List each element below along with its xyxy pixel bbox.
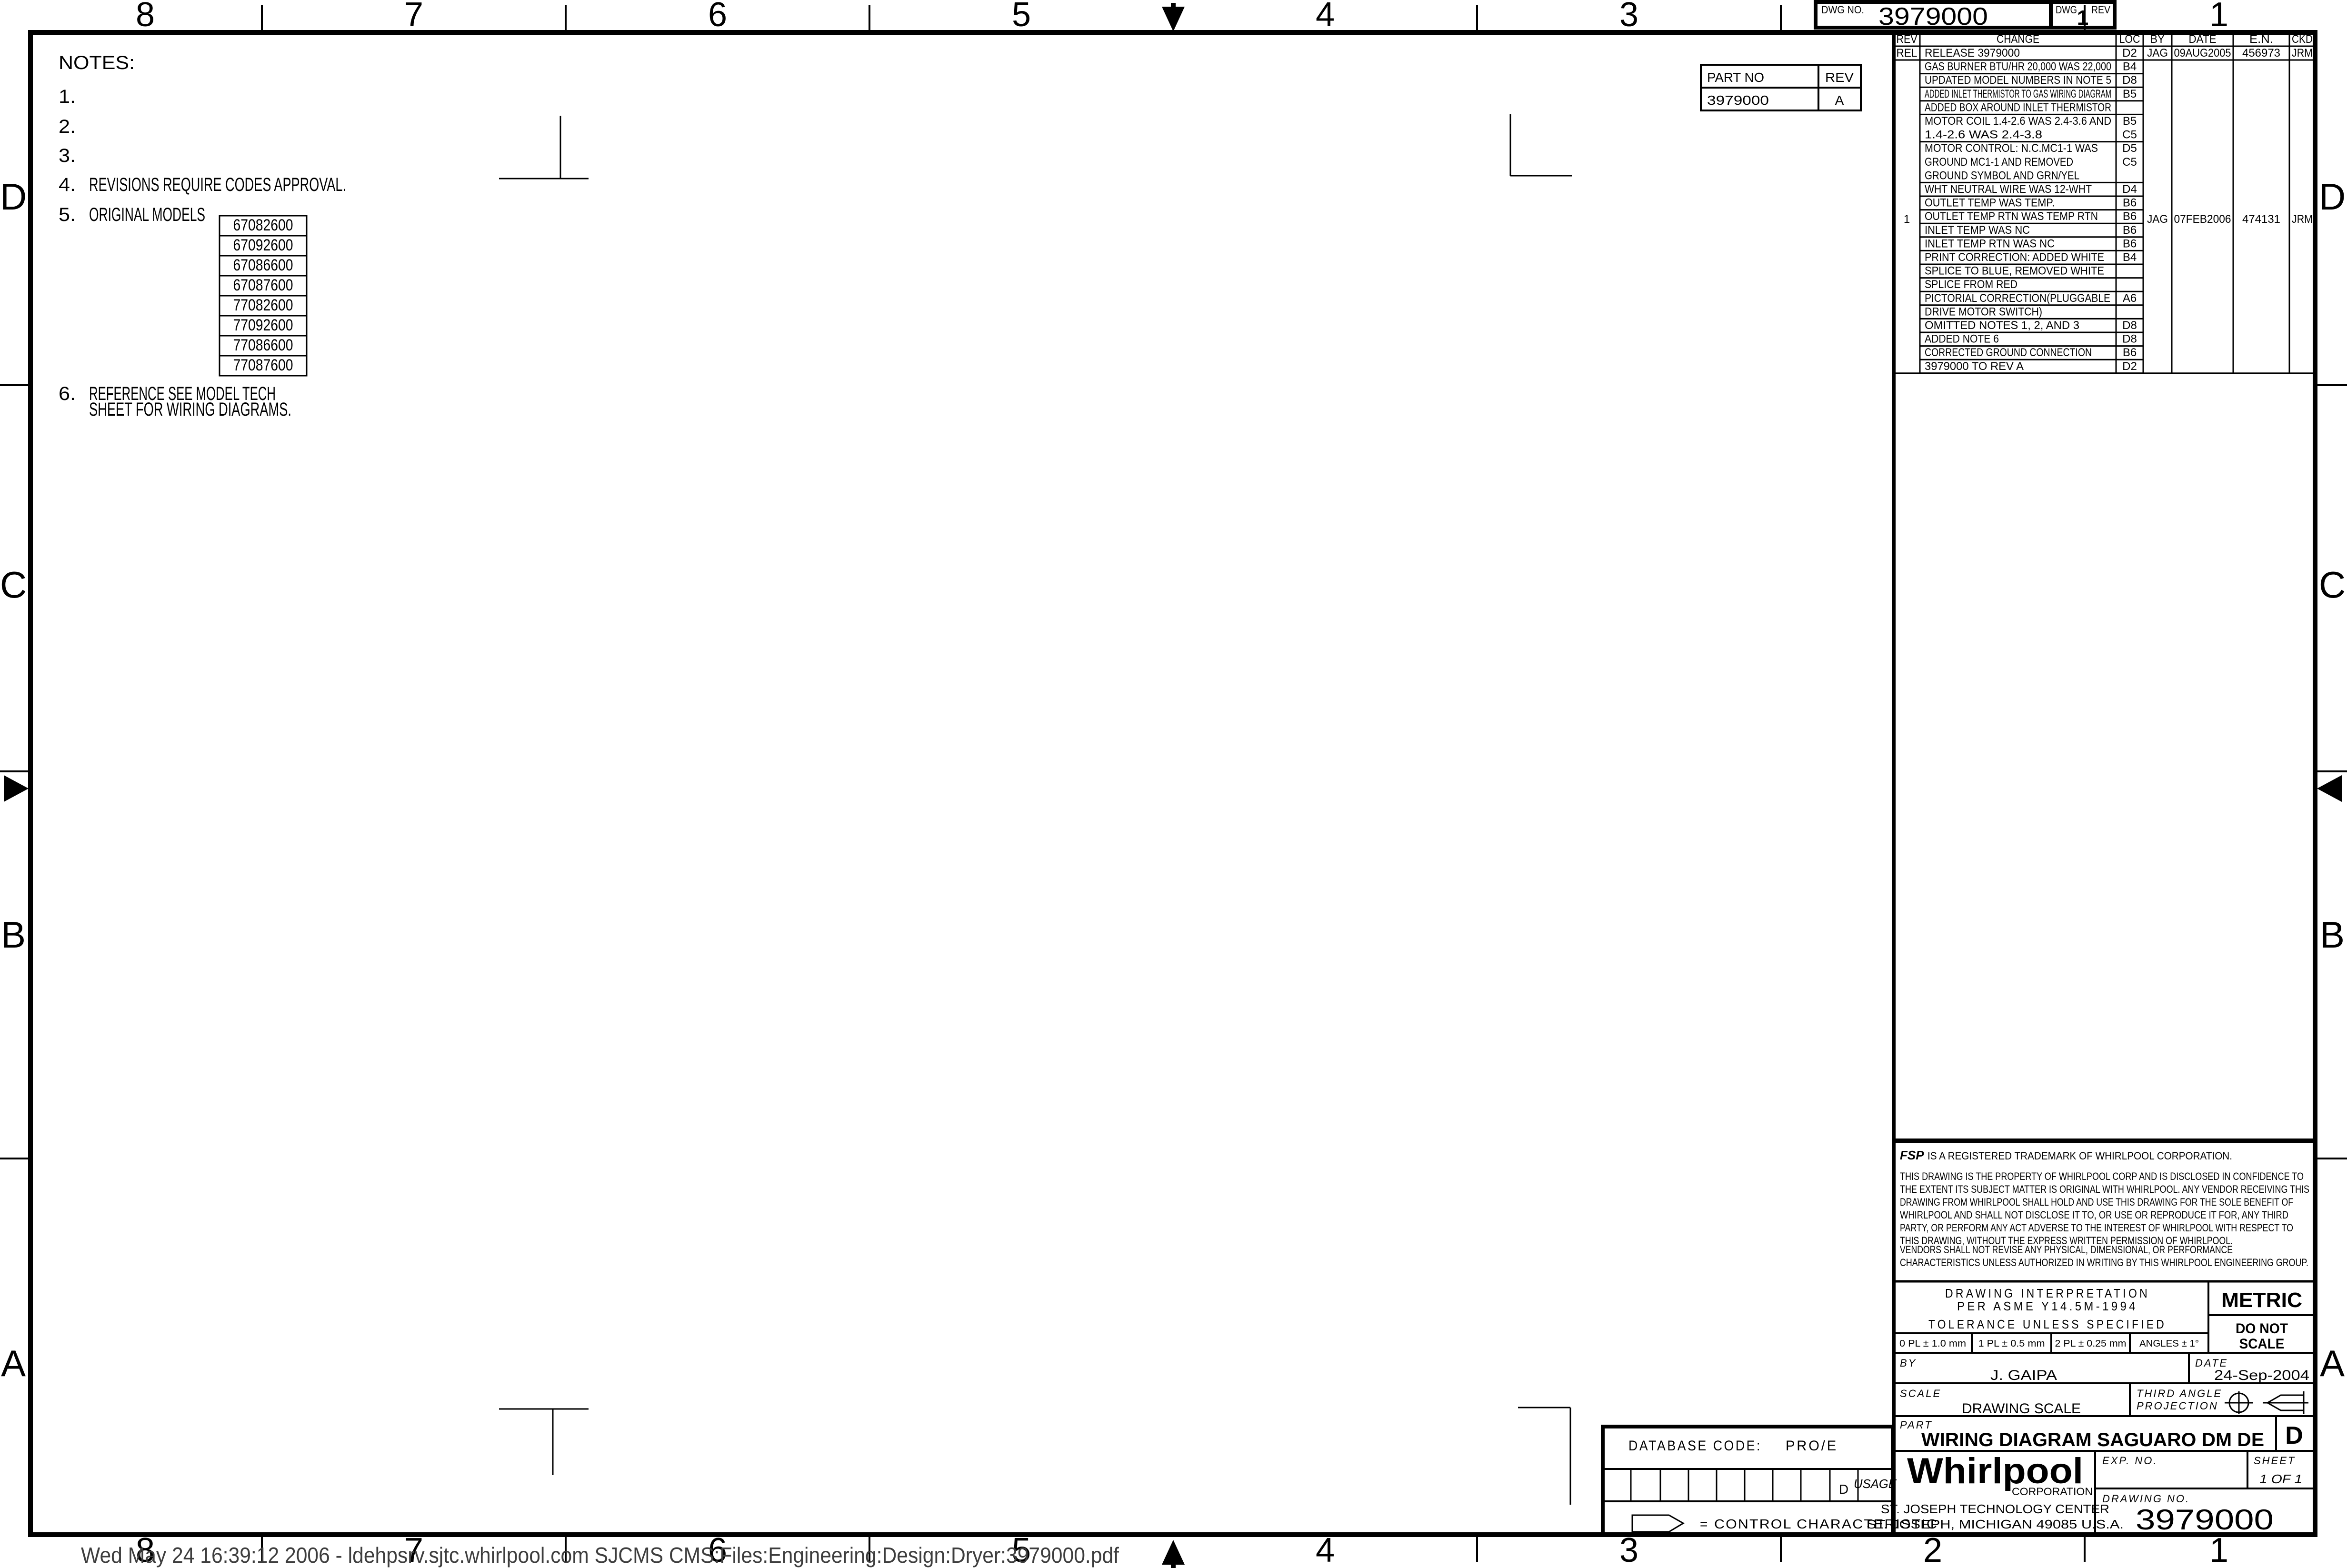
svg-text:4: 4 [1316, 0, 1335, 34]
revision table [1894, 32, 2315, 1535]
svg-text:DRIVE MOTOR SWITCH): DRIVE MOTOR SWITCH) [1925, 305, 2042, 318]
svg-text:UPDATED MODEL NUMBERS IN NOTE: UPDATED MODEL NUMBERS IN NOTE 5 [1925, 74, 2111, 87]
svg-text:67086600: 67086600 [233, 256, 293, 274]
svg-text:ADDED BOX AROUND INLET THERMIS: ADDED BOX AROUND INLET THERMISTOR [1925, 101, 2111, 114]
svg-text:67082600: 67082600 [233, 216, 293, 234]
svg-text:CHARACTERISTICS UNLESS AUTHORI: CHARACTERISTICS UNLESS AUTHORIZED IN WRI… [1900, 1257, 2308, 1268]
svg-text:3979000: 3979000 [1707, 93, 1769, 108]
svg-text:NOTES:: NOTES: [59, 52, 135, 73]
svg-text:1: 1 [2077, 6, 2088, 30]
svg-text:5: 5 [1012, 0, 1031, 34]
center fold arrow right [2317, 775, 2342, 802]
svg-text:3979000 TO REV A: 3979000 TO REV A [1925, 360, 2024, 373]
svg-text:THE EXTENT ITS SUBJECT MATTER: THE EXTENT ITS SUBJECT MATTER IS ORIGINA… [1900, 1183, 2309, 1195]
svg-text:474131: 474131 [2242, 213, 2280, 226]
svg-text:JRM: JRM [2292, 213, 2313, 226]
svg-text:B6: B6 [2123, 237, 2137, 250]
center fold arrow left [4, 775, 29, 802]
svg-text:SPLICE FROM RED: SPLICE FROM RED [1925, 278, 2017, 291]
svg-text:PICTORIAL CORRECTION(PLUGGABLE: PICTORIAL CORRECTION(PLUGGABLE [1925, 292, 2110, 305]
svg-text:BY: BY [2150, 33, 2165, 46]
title block SCALE / THIRD ANGLE row [1894, 1383, 2315, 1417]
svg-text:1 OF 1: 1 OF 1 [2259, 1472, 2302, 1486]
svg-text:INLET TEMP WAS NC: INLET TEMP WAS NC [1925, 224, 2030, 237]
svg-text:D2: D2 [2122, 360, 2137, 373]
svg-text:1: 1 [2209, 1531, 2228, 1568]
svg-text:USAGE: USAGE [1854, 1477, 1897, 1491]
footer plot timestamp text [81, 1543, 1119, 1568]
svg-text:2 PL ± 0.25 mm: 2 PL ± 0.25 mm [2055, 1338, 2127, 1349]
svg-text:CORPORATION: CORPORATION [2012, 1486, 2093, 1498]
svg-text:24-Sep-2004: 24-Sep-2004 [2214, 1368, 2309, 1383]
svg-text:OMITTED NOTES 1, 2, AND 3: OMITTED NOTES 1, 2, AND 3 [1925, 319, 2079, 332]
svg-text:67087600: 67087600 [233, 276, 293, 294]
svg-text:B6: B6 [2123, 346, 2137, 359]
svg-text:OUTLET TEMP RTN WAS TEMP RTN: OUTLET TEMP RTN WAS TEMP RTN [1925, 210, 2098, 223]
svg-text:456973: 456973 [2242, 47, 2280, 60]
svg-text:MOTOR COIL 1.4-2.6 WAS 2.4-3.6: MOTOR COIL 1.4-2.6 WAS 2.4-3.6 AND [1925, 115, 2111, 128]
svg-text:1.: 1. [59, 86, 76, 107]
svg-text:JRM: JRM [2292, 47, 2313, 60]
title block PART row [1894, 1416, 2315, 1451]
svg-text:DRAWING SCALE: DRAWING SCALE [1962, 1401, 2081, 1417]
svg-text:C5: C5 [2122, 156, 2137, 169]
camera alignment mark upper-right [1510, 114, 1572, 176]
camera alignment mark lower-left [499, 1409, 589, 1475]
svg-text:B5: B5 [2123, 88, 2137, 100]
svg-text:JAG: JAG [2147, 213, 2168, 226]
svg-text:DATE: DATE [2189, 33, 2217, 46]
svg-text:6: 6 [708, 0, 727, 34]
svg-text:8: 8 [136, 0, 155, 34]
svg-text:2: 2 [1923, 1531, 1942, 1568]
zone column labels bottom [136, 1531, 2228, 1568]
svg-text:6.: 6. [59, 383, 76, 404]
svg-text:PART NO: PART NO [1707, 70, 1764, 85]
svg-text:3: 3 [1619, 0, 1638, 34]
svg-text:ADDED NOTE 6: ADDED NOTE 6 [1925, 333, 1999, 346]
svg-text:DWG: DWG [2056, 4, 2077, 16]
svg-text:PRO/E: PRO/E [1786, 1438, 1838, 1454]
svg-text:CORRECTED GROUND CONNECTION: CORRECTED GROUND CONNECTION [1925, 346, 2092, 359]
svg-text:09AUG2005: 09AUG2005 [2174, 47, 2231, 60]
svg-text:PRINT CORRECTION: ADDED WHITE: PRINT CORRECTION: ADDED WHITE [1925, 251, 2104, 264]
notes text block [59, 52, 346, 420]
svg-text:SPLICE TO BLUE, REMOVED WHITE: SPLICE TO BLUE, REMOVED WHITE [1925, 265, 2104, 278]
svg-text:D: D [2285, 1422, 2303, 1449]
svg-text:07FEB2006: 07FEB2006 [2174, 213, 2231, 226]
svg-text:JAG: JAG [2147, 47, 2168, 60]
svg-text:SHEET FOR WIRING DIAGRAMS.: SHEET FOR WIRING DIAGRAMS. [89, 399, 291, 420]
svg-text:D: D [2319, 176, 2346, 218]
svg-text:WIRING DIAGRAM SAGUARO DM DE: WIRING DIAGRAM SAGUARO DM DE [1921, 1429, 2264, 1450]
svg-text:TOLERANCE UNLESS SPECIFIED: TOLERANCE UNLESS SPECIFIED [1928, 1317, 2167, 1331]
svg-text:E.N.: E.N. [2249, 33, 2273, 46]
DWG NO header box [1816, 2, 2115, 30]
svg-text:ANGLES ± 1°: ANGLES ± 1° [2139, 1338, 2199, 1349]
svg-text:1: 1 [1904, 213, 1910, 226]
svg-text:77087600: 77087600 [233, 356, 293, 374]
svg-text:3979000: 3979000 [1878, 3, 1988, 30]
svg-text:B6: B6 [2123, 224, 2137, 237]
svg-text:WHT NEUTRAL WIRE WAS 12-WHT: WHT NEUTRAL WIRE WAS 12-WHT [1925, 183, 2092, 196]
center fold arrow top [1162, 3, 1185, 31]
svg-text:RELEASE 3979000: RELEASE 3979000 [1925, 47, 2020, 60]
svg-text:SCALE: SCALE [1900, 1388, 1941, 1399]
svg-text:ADDED INLET THERMISTOR TO GAS: ADDED INLET THERMISTOR TO GAS WIRING DIA… [1925, 88, 2111, 100]
Whirlpool logo block [1867, 1451, 2124, 1535]
svg-text:SHEET: SHEET [2254, 1455, 2296, 1467]
svg-text:J. GAIPA: J. GAIPA [1990, 1368, 2057, 1383]
camera alignment mark upper-left [499, 116, 589, 179]
svg-text:3.: 3. [59, 145, 76, 166]
drawing interpretation / tolerance block [1894, 1281, 2315, 1353]
svg-text:DRAWING FROM WHIRLPOOL SHALL H: DRAWING FROM WHIRLPOOL SHALL HOLD AND US… [1900, 1196, 2293, 1208]
svg-text:IS A REGISTERED TRADEMARK OF W: IS A REGISTERED TRADEMARK OF WHIRLPOOL C… [1928, 1150, 2232, 1162]
svg-text:1 PL ± 0.5 mm: 1 PL ± 0.5 mm [1978, 1338, 2045, 1349]
svg-text:=: = [1700, 1517, 1708, 1531]
original models table [220, 216, 307, 376]
svg-text:5.: 5. [59, 204, 76, 225]
zone row labels right [2319, 176, 2346, 1384]
svg-text:B6: B6 [2123, 197, 2137, 210]
svg-text:INLET TEMP RTN WAS NC: INLET TEMP RTN WAS NC [1925, 237, 2055, 250]
svg-text:2.: 2. [59, 116, 76, 137]
svg-text:REV: REV [1825, 70, 1854, 85]
svg-text:THIRD ANGLE: THIRD ANGLE [2137, 1388, 2222, 1399]
svg-text:C: C [2319, 564, 2346, 606]
svg-text:REV: REV [2091, 4, 2110, 16]
svg-text:77086600: 77086600 [233, 336, 293, 354]
svg-text:3: 3 [1619, 1531, 1638, 1568]
svg-text:ORIGINAL MODELS: ORIGINAL MODELS [89, 204, 205, 225]
zone tick marks top/bottom [262, 5, 2085, 1562]
svg-text:C5: C5 [2122, 129, 2137, 141]
svg-text:REV: REV [1897, 33, 1918, 46]
svg-text:BY: BY [1900, 1357, 1917, 1369]
svg-text:C: C [0, 564, 27, 606]
zone side tick marks [0, 385, 2347, 1159]
zone column labels top [136, 0, 2228, 34]
svg-text:ST. JOSEPH TECHNOLOGY CENTER: ST. JOSEPH TECHNOLOGY CENTER [1881, 1502, 2109, 1516]
svg-text:DRAWING INTERPRETATION: DRAWING INTERPRETATION [1945, 1286, 2150, 1300]
svg-text:Wed May 24 16:39:12 2006 - lde: Wed May 24 16:39:12 2006 - ldehpsrv.sjtc… [81, 1543, 1119, 1568]
svg-text:PER ASME Y14.5M-1994: PER ASME Y14.5M-1994 [1957, 1299, 2138, 1313]
svg-text:PARTY, OR PERFORM ANY ACT ADVE: PARTY, OR PERFORM ANY ACT ADVERSE TO THE… [1900, 1222, 2293, 1234]
svg-text:77092600: 77092600 [233, 316, 293, 334]
svg-text:A: A [1835, 93, 1844, 108]
svg-text:D2: D2 [2122, 47, 2137, 60]
center fold arrow bottom [1162, 1540, 1185, 1568]
svg-text:DATABASE CODE:: DATABASE CODE: [1628, 1438, 1762, 1454]
svg-text:DO NOT: DO NOT [2236, 1321, 2288, 1337]
svg-text:D: D [0, 176, 27, 218]
svg-text:WHIRLPOOL AND SHALL NOT DISCLO: WHIRLPOOL AND SHALL NOT DISCLOSE IT TO, … [1900, 1209, 2288, 1221]
svg-text:D: D [1839, 1482, 1848, 1497]
svg-text:1: 1 [2209, 0, 2228, 34]
svg-text:PROJECTION: PROJECTION [2137, 1400, 2218, 1412]
svg-text:4: 4 [1316, 1531, 1335, 1568]
svg-text:LOC: LOC [2119, 33, 2140, 46]
svg-text:0 PL ± 1.0 mm: 0 PL ± 1.0 mm [1899, 1338, 1966, 1349]
svg-text:7: 7 [404, 0, 423, 34]
svg-text:4.: 4. [59, 174, 76, 195]
svg-text:FSP: FSP [1900, 1148, 1924, 1162]
svg-text:B: B [2320, 914, 2345, 956]
title block legal text [1894, 1141, 2315, 1268]
control characteristic legend [1632, 1515, 1938, 1532]
svg-text:B4: B4 [2123, 251, 2137, 264]
DRAWING NO cell [2102, 1493, 2274, 1536]
svg-text:CONTROL CHARACTERISTIC: CONTROL CHARACTERISTIC [1714, 1517, 1938, 1531]
svg-text:REVISIONS REQUIRE CODES APPROV: REVISIONS REQUIRE CODES APPROVAL. [89, 174, 346, 195]
svg-text:VENDORS SHALL NOT REVISE ANY P: VENDORS SHALL NOT REVISE ANY PHYSICAL, D… [1900, 1244, 2233, 1256]
svg-text:GROUND MC1-1 AND REMOVED: GROUND MC1-1 AND REMOVED [1925, 156, 2073, 169]
svg-text:D5: D5 [2122, 142, 2137, 155]
EXP NO / SHEET cells [2095, 1451, 2315, 1488]
svg-text:D8: D8 [2122, 319, 2137, 332]
svg-text:DWG NO.: DWG NO. [1821, 4, 1864, 16]
svg-text:GROUND SYMBOL AND GRN/YEL: GROUND SYMBOL AND GRN/YEL [1925, 169, 2079, 182]
svg-text:METRIC: METRIC [2221, 1288, 2302, 1312]
svg-text:DRAWING NO.: DRAWING NO. [2102, 1493, 2190, 1505]
svg-text:67092600: 67092600 [233, 236, 293, 254]
svg-text:SCALE: SCALE [2239, 1336, 2285, 1352]
svg-text:D8: D8 [2122, 74, 2137, 87]
svg-text:B5: B5 [2123, 115, 2137, 128]
svg-text:CKD: CKD [2292, 33, 2313, 46]
svg-text:CHANGE: CHANGE [1997, 33, 2039, 46]
svg-text:MOTOR CONTROL: N.C.MC1-1 WAS: MOTOR CONTROL: N.C.MC1-1 WAS [1925, 142, 2098, 155]
svg-text:D8: D8 [2122, 333, 2137, 346]
svg-text:EXP. NO.: EXP. NO. [2102, 1455, 2158, 1467]
svg-text:77082600: 77082600 [233, 296, 293, 314]
svg-text:D4: D4 [2122, 183, 2137, 196]
svg-text:THIS DRAWING IS THE PROPERTY O: THIS DRAWING IS THE PROPERTY OF WHIRLPOO… [1900, 1170, 2304, 1182]
svg-text:A: A [1, 1342, 26, 1384]
svg-text:OUTLET TEMP WAS TEMP.: OUTLET TEMP WAS TEMP. [1925, 197, 2055, 210]
zone row labels left [0, 176, 27, 1384]
camera alignment mark lower-right [1518, 1408, 1570, 1505]
PART NO / REV table [1701, 65, 1861, 110]
svg-text:A6: A6 [2123, 292, 2137, 305]
svg-text:GAS BURNER BTU/HR 20,000 WAS 2: GAS BURNER BTU/HR 20,000 WAS 22,000 [1925, 60, 2111, 73]
svg-text:B4: B4 [2123, 60, 2137, 73]
svg-text:3979000: 3979000 [2136, 1504, 2274, 1536]
svg-text:A: A [2320, 1342, 2345, 1384]
title block BY/DATE row [1894, 1353, 2315, 1383]
svg-text:B: B [1, 914, 26, 956]
svg-text:B6: B6 [2123, 210, 2137, 223]
svg-text:REL: REL [1897, 47, 1918, 60]
database code table [1603, 1427, 1897, 1535]
svg-text:1.4-2.6 WAS 2.4-3.8: 1.4-2.6 WAS 2.4-3.8 [1925, 129, 2042, 141]
